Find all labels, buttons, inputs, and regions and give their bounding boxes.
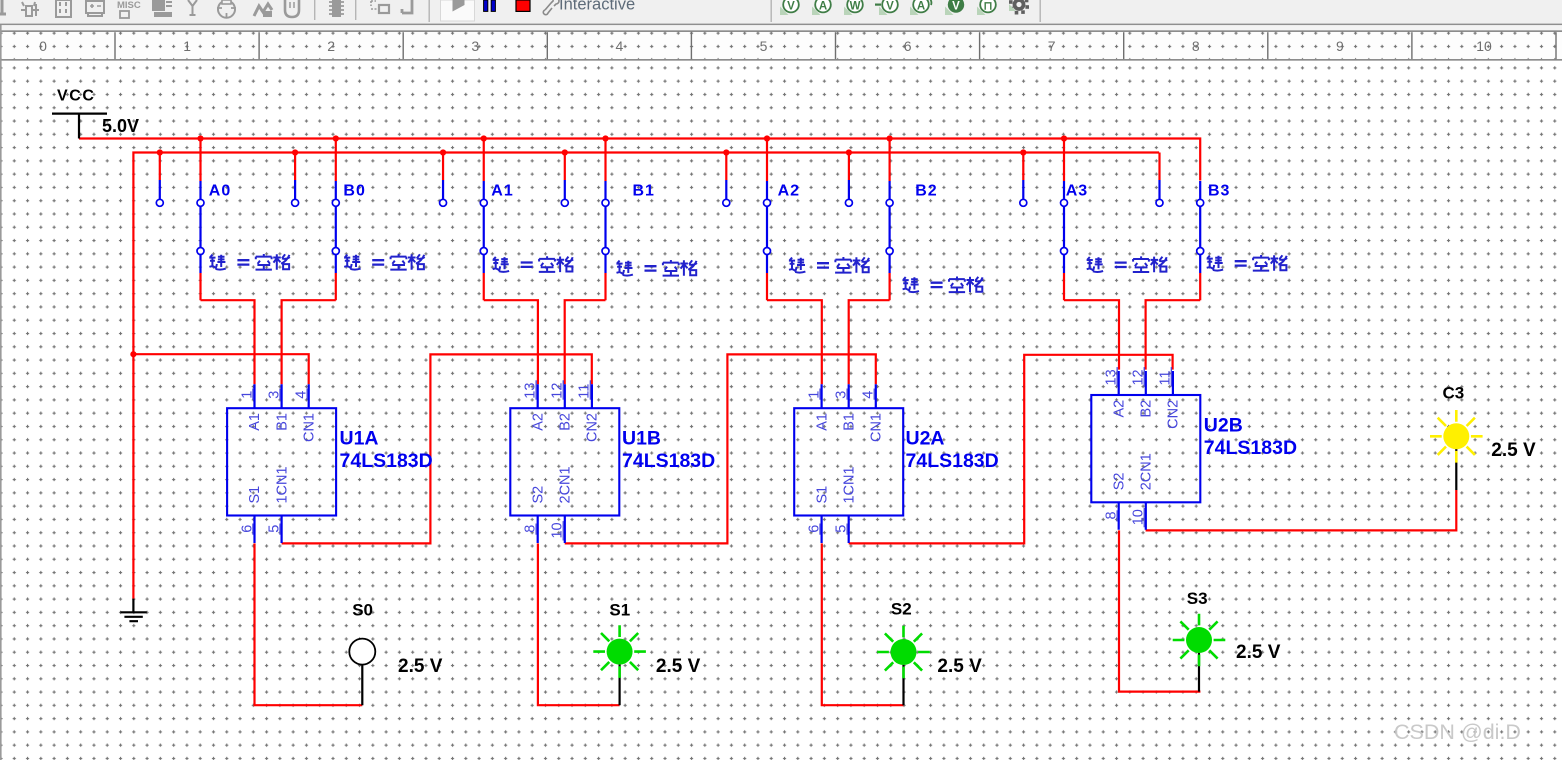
svg-text:2.5 V: 2.5 V bbox=[656, 656, 701, 677]
svg-text:B1: B1 bbox=[633, 182, 655, 199]
svg-text:⊓: ⊓ bbox=[984, 1, 993, 13]
svg-text:VCC: VCC bbox=[57, 88, 96, 105]
svg-text:2: 2 bbox=[327, 38, 335, 54]
svg-text:CSDN @di.D: CSDN @di.D bbox=[1394, 720, 1521, 744]
svg-text:11: 11 bbox=[577, 384, 593, 399]
svg-text:B2: B2 bbox=[558, 413, 574, 431]
svg-text:S3: S3 bbox=[1187, 589, 1208, 608]
svg-text:Interactive: Interactive bbox=[559, 0, 635, 14]
svg-text:5.0V: 5.0V bbox=[102, 116, 139, 136]
svg-text:74LS183D: 74LS183D bbox=[1204, 437, 1297, 459]
svg-text:8: 8 bbox=[1192, 38, 1200, 54]
svg-text:1: 1 bbox=[183, 38, 191, 54]
svg-text:1: 1 bbox=[239, 391, 255, 399]
svg-text:10: 10 bbox=[1131, 509, 1147, 525]
svg-text:S0: S0 bbox=[352, 601, 373, 620]
svg-text:13: 13 bbox=[523, 383, 539, 399]
svg-text:A1: A1 bbox=[491, 182, 513, 199]
svg-text:V: V bbox=[787, 1, 795, 13]
svg-text:8: 8 bbox=[1104, 511, 1120, 519]
svg-text:11: 11 bbox=[1158, 370, 1174, 385]
svg-text:V: V bbox=[886, 1, 894, 13]
svg-text:A2: A2 bbox=[530, 413, 546, 431]
svg-text:A: A bbox=[819, 1, 827, 13]
svg-text:6: 6 bbox=[806, 525, 822, 533]
svg-text:5: 5 bbox=[760, 38, 768, 54]
svg-text:4: 4 bbox=[861, 391, 877, 399]
svg-text:B2: B2 bbox=[1139, 400, 1155, 418]
svg-text:74LS183D: 74LS183D bbox=[340, 450, 433, 472]
svg-text:S2: S2 bbox=[1111, 473, 1127, 491]
svg-text:74LS183D: 74LS183D bbox=[906, 450, 999, 472]
svg-text:S1: S1 bbox=[609, 601, 630, 620]
svg-text:CN2: CN2 bbox=[585, 413, 601, 442]
svg-text:0: 0 bbox=[39, 38, 47, 54]
svg-text:C3: C3 bbox=[1443, 384, 1465, 403]
svg-text:A2: A2 bbox=[778, 182, 800, 199]
svg-text:U1B: U1B bbox=[622, 428, 661, 450]
svg-text:A1: A1 bbox=[814, 413, 830, 431]
svg-text:S1: S1 bbox=[814, 486, 830, 504]
svg-text:74LS183D: 74LS183D bbox=[622, 450, 715, 472]
svg-text:3: 3 bbox=[471, 38, 479, 54]
svg-text:U2A: U2A bbox=[906, 428, 945, 450]
svg-text:U2B: U2B bbox=[1204, 415, 1243, 437]
svg-text:U1A: U1A bbox=[340, 428, 379, 450]
svg-text:5: 5 bbox=[834, 525, 850, 533]
svg-text:4: 4 bbox=[616, 38, 624, 54]
svg-text:S2: S2 bbox=[891, 600, 912, 619]
svg-text:2.5 V: 2.5 V bbox=[937, 656, 982, 677]
svg-text:2.5 V: 2.5 V bbox=[398, 656, 443, 677]
svg-text:B1: B1 bbox=[841, 413, 857, 431]
svg-text:A2: A2 bbox=[1111, 400, 1127, 418]
svg-text:S2: S2 bbox=[530, 486, 546, 504]
svg-text:A: A bbox=[917, 1, 925, 13]
svg-text:B1: B1 bbox=[274, 413, 290, 431]
svg-text:CN1: CN1 bbox=[869, 413, 885, 442]
svg-text:B3: B3 bbox=[1208, 182, 1230, 199]
svg-text:4: 4 bbox=[294, 391, 310, 399]
svg-text:10: 10 bbox=[550, 522, 566, 538]
svg-text:S1: S1 bbox=[247, 486, 263, 504]
svg-text:12: 12 bbox=[550, 383, 566, 399]
svg-text:5: 5 bbox=[266, 525, 282, 533]
svg-text:W: W bbox=[850, 1, 861, 13]
svg-text:B0: B0 bbox=[343, 182, 365, 199]
svg-text:8: 8 bbox=[523, 525, 539, 533]
svg-text:1CN1: 1CN1 bbox=[274, 466, 290, 503]
svg-text:B2: B2 bbox=[915, 182, 937, 199]
svg-text:9: 9 bbox=[1336, 38, 1344, 54]
svg-text:2.5 V: 2.5 V bbox=[1491, 440, 1536, 461]
svg-text:A0: A0 bbox=[209, 182, 231, 199]
svg-text:2.5 V: 2.5 V bbox=[1236, 642, 1281, 663]
svg-text:1: 1 bbox=[806, 391, 822, 399]
svg-text:MISC: MISC bbox=[117, 0, 141, 11]
svg-text:3: 3 bbox=[266, 391, 282, 399]
svg-text:CN1: CN1 bbox=[301, 413, 317, 442]
svg-text:6: 6 bbox=[239, 525, 255, 533]
svg-text:A1: A1 bbox=[247, 413, 263, 431]
svg-text:10: 10 bbox=[1476, 38, 1492, 54]
svg-text:7: 7 bbox=[1048, 38, 1056, 54]
svg-text:V: V bbox=[952, 1, 960, 13]
svg-text:13: 13 bbox=[1104, 369, 1120, 385]
svg-text:CN2: CN2 bbox=[1166, 400, 1182, 429]
svg-text:3: 3 bbox=[834, 391, 850, 399]
svg-text:2CN1: 2CN1 bbox=[558, 466, 574, 503]
svg-text:12: 12 bbox=[1131, 369, 1147, 385]
svg-text:2CN1: 2CN1 bbox=[1139, 453, 1155, 490]
svg-text:A3: A3 bbox=[1066, 182, 1088, 199]
svg-text:6: 6 bbox=[904, 38, 912, 54]
svg-text:1CN1: 1CN1 bbox=[841, 466, 857, 503]
